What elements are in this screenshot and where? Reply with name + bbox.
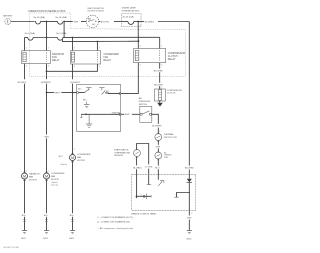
thermal protector SW3 bbox=[155, 133, 177, 140]
svg-text:No.24 (15A): No.24 (15A) bbox=[123, 16, 134, 19]
svg-text:G402: G402 bbox=[69, 238, 75, 240]
svg-text:BLK: BLK bbox=[44, 215, 49, 217]
svg-text:FAN: FAN bbox=[29, 176, 34, 179]
svg-text:WHT: WHT bbox=[125, 114, 130, 116]
svg-text:RELAY: RELAY bbox=[168, 58, 176, 61]
radiator fan relay RY1 bbox=[22, 48, 65, 68]
evaporator temperature sensor TH1 bbox=[114, 148, 140, 157]
svg-text:(Option): (Option) bbox=[51, 181, 58, 184]
svg-text:M: M bbox=[45, 174, 48, 178]
svg-text:PROTECTOR: PROTECTOR bbox=[164, 137, 178, 139]
wire: sensor bottom to heater box, BLU/BLK bbox=[133, 157, 142, 197]
switch S2 in U1 bbox=[99, 88, 120, 95]
svg-text:1: 1 bbox=[159, 131, 160, 133]
wire: relay1 pin4 to radiator fan motor bbox=[18, 64, 27, 173]
svg-text:1: 1 bbox=[26, 170, 27, 172]
svg-text:1: 1 bbox=[48, 170, 49, 172]
svg-text:2: 2 bbox=[191, 213, 192, 215]
ground GND1 (compressor clutch) bbox=[157, 101, 163, 107]
wire: battery to fuse row bbox=[11, 21, 34, 23]
wire: lower bus y=41.6 bbox=[63, 40, 139, 42]
node E bbox=[72, 37, 74, 39]
svg-text:BLU/RED: BLU/RED bbox=[154, 70, 164, 72]
wire: under-dash drop x=137.7 bbox=[137, 22, 139, 49]
svg-text:4: 4 bbox=[74, 66, 75, 68]
switch S1 in U1 bbox=[85, 88, 92, 93]
wire: relay1 pin2 drop bbox=[24, 38, 26, 51]
svg-text:LT GRN: LT GRN bbox=[145, 166, 153, 168]
wire: relay2 pin4 down to condenser fan motor bbox=[71, 64, 81, 155]
wire: motor1 to ground bbox=[22, 179, 27, 230]
pin circles out of U1 bbox=[119, 92, 121, 94]
svg-text:1: 1 bbox=[99, 48, 100, 50]
svg-text:SENSOR: SENSOR bbox=[114, 155, 123, 157]
wire: vertical drop x=63.6 bbox=[63, 22, 65, 38]
svg-text:4: 4 bbox=[141, 194, 142, 196]
node L (fan sw common) bbox=[136, 195, 138, 197]
wire + GRN label bbox=[156, 140, 161, 152]
wire to ground G401 bbox=[188, 220, 190, 231]
A/C thermostat SW4 bbox=[155, 151, 172, 159]
svg-text:3: 3 bbox=[48, 66, 49, 68]
svg-text:CONDENSER: CONDENSER bbox=[51, 173, 65, 175]
A/C control unit box U1 bbox=[77, 85, 121, 132]
wire in U1 bbox=[79, 92, 85, 94]
svg-text:(and up): (and up) bbox=[51, 185, 58, 187]
node K bbox=[85, 113, 87, 115]
svg-text:No.15 (40A): No.15 (40A) bbox=[34, 16, 46, 19]
node D bbox=[46, 37, 48, 39]
svg-text:BLU/RED: BLU/RED bbox=[185, 167, 195, 169]
ground g2 in U1 bbox=[84, 102, 90, 108]
svg-text:BLU/RED: BLU/RED bbox=[154, 84, 164, 86]
compressor clutch relay RY3 bbox=[134, 46, 186, 67]
wire: main right drop bbox=[188, 22, 190, 166]
wire: relay3 pin3 to compressor clutch, BLU/RED bbox=[154, 63, 164, 90]
svg-text:* : A/C compressor - clutch (p: * : A/C compressor - clutch (price) only bbox=[97, 227, 133, 230]
svg-text:FAN: FAN bbox=[51, 175, 56, 178]
ground g3 in U1 bbox=[86, 114, 92, 127]
svg-text:FAN: FAN bbox=[77, 156, 82, 159]
wire: vertical battery bus x=46 bbox=[46, 22, 48, 38]
evap sensor pin caps bbox=[136, 149, 138, 150]
svg-text:THERMAL: THERMAL bbox=[164, 133, 175, 136]
wire: relay3 pin4 down-left to U1 bbox=[121, 63, 138, 94]
wire: right line through box bottom bbox=[188, 193, 190, 216]
node A (junction fuse row / radiator fan feed) bbox=[46, 21, 48, 23]
svg-text:RELAY: RELAY bbox=[52, 59, 60, 62]
svg-text:BLK/YEL: BLK/YEL bbox=[101, 21, 110, 23]
ignition switch SW1 bbox=[86, 8, 104, 28]
wire: relay2 pin2 drop bbox=[72, 38, 74, 51]
svg-text:1: 1 bbox=[161, 46, 162, 48]
svg-text:M: M bbox=[71, 156, 74, 160]
condenser fan motor M2 bbox=[44, 170, 65, 186]
wire: diode branch to fan switch contact bbox=[174, 193, 189, 198]
contact bar (heater box) bbox=[147, 184, 151, 186]
svg-text:UNDER-HOOD FUSE/RELAY BOX: UNDER-HOOD FUSE/RELAY BOX bbox=[28, 10, 66, 13]
svg-text:G401: G401 bbox=[186, 238, 192, 240]
svg-text:IG2: IG2 bbox=[92, 24, 95, 26]
svg-text:CONDENSER: CONDENSER bbox=[77, 154, 91, 156]
svg-text:IG2 HOT IN ON (II): IG2 HOT IN ON (II) bbox=[88, 11, 105, 13]
svg-text:GRN: GRN bbox=[187, 218, 192, 220]
compressor clutch L1 bbox=[155, 89, 183, 101]
under-hood fuse/relay box (dashed outline with notch) bbox=[28, 10, 186, 77]
label LT GRN bbox=[145, 166, 153, 184]
ground G201 bbox=[21, 231, 27, 241]
svg-text:4: 4 bbox=[140, 65, 141, 67]
svg-text:TEMPERATURE: TEMPERATURE bbox=[114, 151, 130, 154]
svg-text:G202: G202 bbox=[43, 238, 49, 240]
wire: relay1 pin3 down bbox=[41, 64, 52, 173]
svg-text:BLU/WHT: BLU/WHT bbox=[152, 126, 162, 128]
node M bbox=[189, 192, 190, 193]
wire: y71 link relay2 pin3 bbox=[47, 64, 98, 71]
node J bbox=[72, 92, 74, 94]
wire to ignition switch with WHT label bbox=[64, 21, 86, 23]
svg-text:2: 2 bbox=[140, 46, 141, 48]
wire: upper bus y=37.5 bbox=[25, 32, 160, 40]
node F bbox=[97, 41, 99, 43]
svg-text:WHT: WHT bbox=[55, 92, 60, 94]
svg-text:BLU/BLK: BLU/BLK bbox=[18, 82, 27, 84]
wire bbox=[42, 21, 58, 23]
svg-text:G201: G201 bbox=[21, 238, 27, 240]
svg-text:BLK: BLK bbox=[70, 215, 75, 217]
svg-text:GRN: GRN bbox=[156, 147, 161, 149]
svg-text:BLK: BLK bbox=[22, 215, 27, 217]
battery B1 bbox=[3, 15, 13, 25]
svg-text:SWITCH: SWITCH bbox=[139, 104, 148, 106]
ground G402 bbox=[69, 231, 75, 241]
svg-text:No.2 (20A): No.2 (20A) bbox=[56, 32, 66, 35]
svg-text:M: M bbox=[23, 174, 26, 178]
under-dash fuse/relay box (dashed) bbox=[122, 6, 142, 26]
svg-text:(A/T): (A/T) bbox=[59, 155, 63, 158]
svg-text:PRESSURE: PRESSURE bbox=[139, 101, 151, 103]
wire y196 with connector bbox=[136, 194, 151, 199]
wire to heater box, BLU bbox=[155, 159, 160, 180]
label BLU/WHT bbox=[152, 126, 162, 134]
wire: pressure switch to thermal protector bbox=[152, 114, 159, 124]
svg-text:UNDER-DASH: UNDER-DASH bbox=[122, 6, 136, 9]
svg-text:EVAPORATOR: EVAPORATOR bbox=[114, 148, 129, 151]
svg-text:CLUTCH: CLUTCH bbox=[167, 93, 176, 95]
svg-text:BLU: BLU bbox=[155, 168, 160, 170]
thermal protector pin caps bbox=[158, 133, 160, 134]
wire: motor3 to ground bbox=[70, 161, 75, 231]
svg-text:BATTERY: BATTERY bbox=[3, 15, 13, 18]
ground G202 bbox=[43, 231, 49, 241]
condenser fan relay RY2 bbox=[71, 48, 120, 68]
svg-text:MOTOR: MOTOR bbox=[77, 160, 85, 162]
switch S3 in heater box bbox=[158, 180, 164, 186]
pin circle into U1 bbox=[77, 92, 79, 94]
svg-text:RELAY: RELAY bbox=[104, 59, 112, 62]
svg-text:3: 3 bbox=[99, 66, 100, 68]
svg-text:GRN: GRN bbox=[44, 136, 49, 138]
diode D1 bbox=[187, 170, 192, 193]
svg-text:MOTOR: MOTOR bbox=[51, 179, 59, 181]
wire: U1 to pressure switch, WHT bbox=[121, 114, 140, 116]
node C (junction in under-dash box) bbox=[137, 21, 139, 23]
svg-text:RADIATOR: RADIATOR bbox=[29, 173, 40, 176]
node H (y71 tie) bbox=[46, 70, 48, 72]
svg-text:BLU/RED: BLU/RED bbox=[145, 21, 155, 23]
svg-text:A/C: A/C bbox=[139, 97, 143, 100]
svg-text:[ ] : CONNECTOR NUMBERS (V6): [ ] : CONNECTOR NUMBERS (V6) bbox=[97, 222, 130, 224]
svg-text:HEATER CONTROL PANEL: HEATER CONTROL PANEL bbox=[131, 212, 157, 215]
svg-text:IGNITION SWITCH: IGNITION SWITCH bbox=[87, 8, 104, 10]
wire y114 in U1 bbox=[81, 113, 120, 115]
svg-text:( ) : CONNECTOR NUMBERS (4-CYL: ( ) : CONNECTOR NUMBERS (4-CYL) bbox=[97, 217, 133, 219]
wire: relay2 pin1 drop bbox=[96, 42, 98, 51]
wire: relay3 pin1 drop bbox=[159, 37, 161, 48]
svg-text:1: 1 bbox=[48, 48, 49, 50]
svg-text:2: 2 bbox=[74, 48, 75, 50]
A/C pressure switch SW2 bbox=[139, 97, 152, 122]
node G bbox=[138, 40, 140, 42]
svg-text:MOTOR: MOTOR bbox=[29, 179, 37, 181]
wire: sensor top loop to heater box bbox=[137, 144, 149, 165]
svg-text:2: 2 bbox=[74, 148, 75, 150]
wire: motor2 to ground bbox=[44, 179, 49, 230]
svg-text:(Option): (Option) bbox=[60, 163, 67, 166]
node I bbox=[46, 92, 48, 94]
node B (junction fuse2 out / lower bus drop) bbox=[63, 21, 65, 23]
svg-text:No.1 (20A): No.1 (20A) bbox=[25, 32, 35, 35]
svg-text:COMPRESSOR: COMPRESSOR bbox=[167, 90, 183, 92]
svg-text:WHT: WHT bbox=[74, 21, 79, 23]
wire: relay1 pin1 drop bbox=[46, 38, 48, 51]
wire ignition to under-dash box, BLK/YEL bbox=[99, 21, 122, 23]
svg-text:BLU/BLK: BLU/BLK bbox=[133, 168, 142, 170]
svg-text:3: 3 bbox=[161, 65, 162, 67]
heater control panel box U2 (dashed) bbox=[131, 174, 195, 215]
wire: y92.5 branch WHT bbox=[47, 92, 77, 94]
svg-text:4: 4 bbox=[26, 66, 27, 68]
fuse No.24 bbox=[122, 16, 142, 25]
svg-text:2: 2 bbox=[26, 48, 27, 50]
condenser fan motor M3 bbox=[59, 148, 91, 166]
svg-text:No.16 (40A): No.16 (40A) bbox=[56, 16, 68, 19]
contact tick in U1 bbox=[80, 114, 83, 117]
svg-text:BLU/WHT: BLU/WHT bbox=[71, 82, 81, 84]
motor pin caps bbox=[24, 172, 26, 174]
radiator fan motor M1 bbox=[22, 170, 41, 181]
fuse No.15 bbox=[34, 16, 46, 24]
svg-text:MD AUTOZONE: MD AUTOZONE bbox=[4, 246, 20, 249]
svg-text:FUSE/RELAY BOX: FUSE/RELAY BOX bbox=[122, 9, 140, 12]
fuse No.16 bbox=[56, 16, 68, 24]
ground G401 bbox=[186, 231, 192, 241]
wire under-dash to right edge, BLU/RED bbox=[141, 21, 189, 23]
